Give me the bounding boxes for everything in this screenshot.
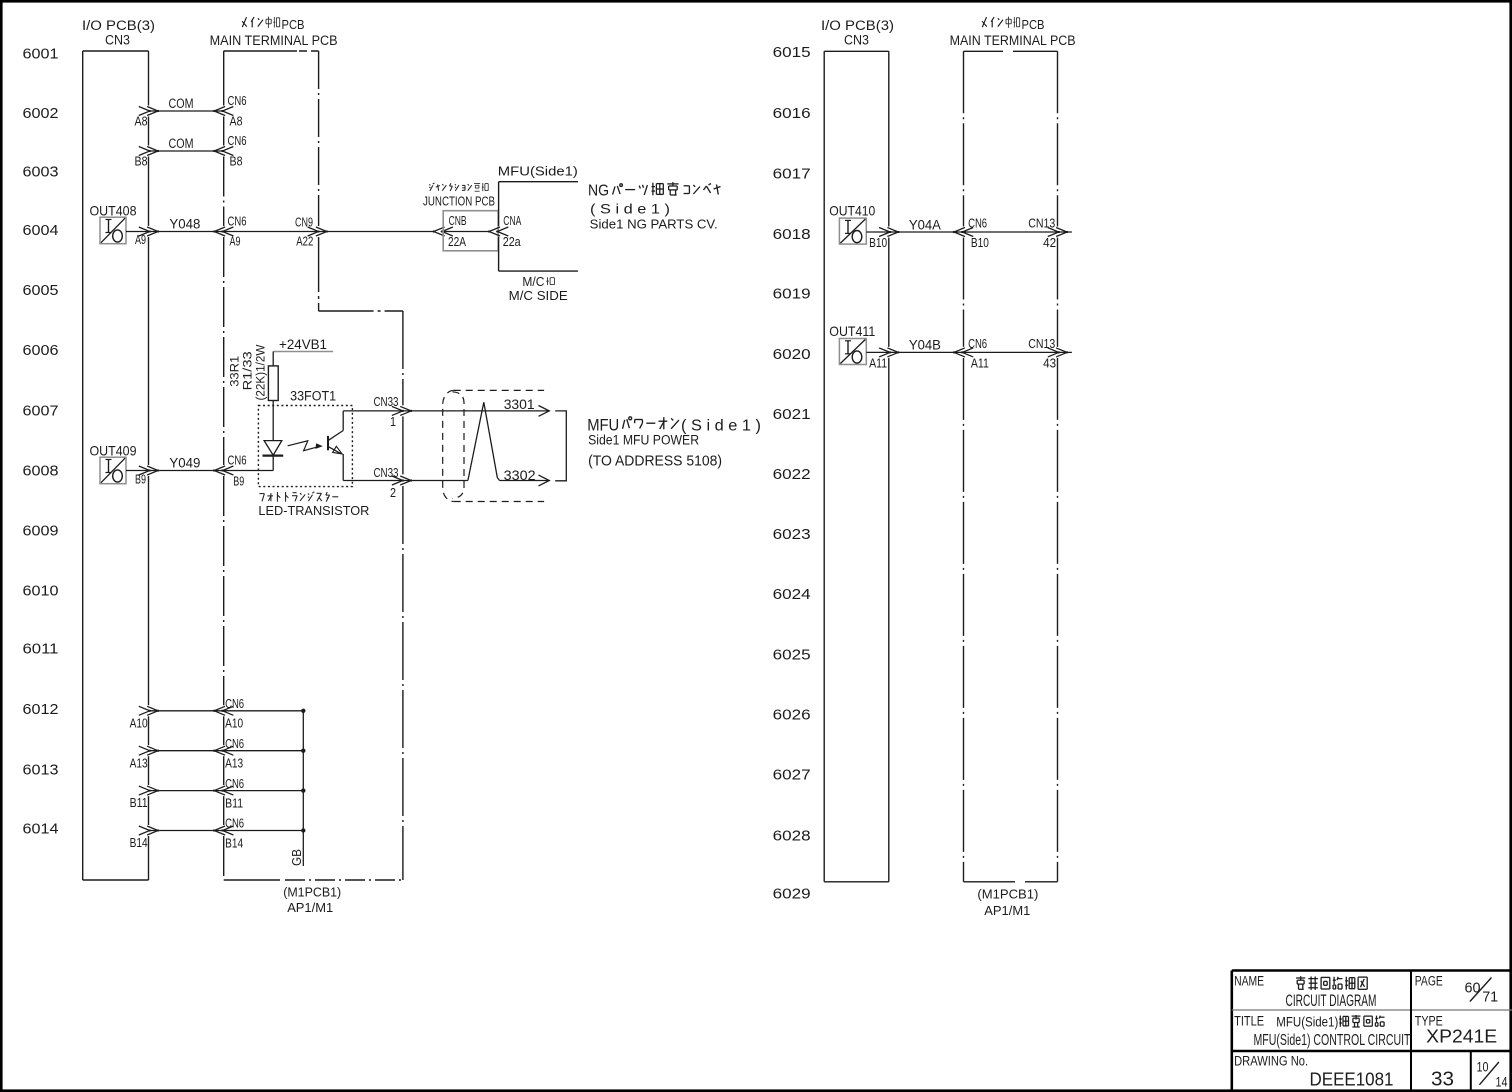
twisted pair crossover (468, 402, 500, 480)
svg-text:42: 42 (1043, 236, 1056, 250)
svg-text:CN13: CN13 (1028, 216, 1055, 230)
svg-text:A11: A11 (869, 356, 887, 370)
svg-text:PCB: PCB (1022, 17, 1045, 32)
junction PCB box (443, 211, 498, 251)
svg-text:71: 71 (1482, 989, 1498, 1006)
svg-text:6028: 6028 (773, 828, 811, 844)
svg-text:CNB: CNB (449, 214, 467, 228)
wire CN3 B11 to CN6 B11 (149, 790, 224, 792)
svg-text:6004: 6004 (23, 223, 59, 239)
svg-text:(M1PCB1): (M1PCB1) (977, 887, 1038, 902)
junction dot (301, 788, 305, 792)
arrow into M/C side CNA 22a (497, 227, 508, 236)
svg-text:43: 43 (1043, 356, 1056, 370)
svg-text:JUNCTION PCB: JUNCTION PCB (423, 195, 495, 209)
svg-text:CN6: CN6 (968, 216, 987, 230)
svg-text:22A: 22A (448, 235, 467, 249)
svg-text:CN33: CN33 (374, 466, 399, 480)
svg-text:22a: 22a (503, 235, 521, 249)
svg-text:6018: 6018 (773, 227, 811, 243)
arrow out of CN3 pin A10 (139, 706, 150, 715)
svg-text:CN6: CN6 (228, 94, 247, 108)
connector box CN3 of I/O PCB(3) right (823, 51, 825, 882)
svg-text:Y049: Y049 (169, 456, 200, 471)
svg-text:(22K)1/2W: (22K)1/2W (256, 344, 268, 400)
svg-text:33R1: 33R1 (230, 356, 242, 387)
svg-text:MFU(Side1): MFU(Side1) (498, 163, 578, 178)
svg-text:I/O PCB(3): I/O PCB(3) (821, 18, 894, 33)
svg-text:B11: B11 (130, 796, 148, 810)
arrow into CN6 pin B11 (222, 786, 233, 795)
svg-text:OUT408: OUT408 (90, 203, 137, 219)
wire CN3 A13 to CN6 A13 (149, 750, 224, 752)
svg-text:6012: 6012 (23, 702, 59, 718)
PCB boundary bottom edge left (224, 879, 280, 881)
svg-text:A13: A13 (225, 757, 243, 771)
svg-text:6002: 6002 (23, 106, 59, 122)
svg-text:PCB: PCB (282, 17, 305, 32)
wire COM A8 (149, 110, 224, 112)
svg-text:AP1/M1: AP1/M1 (287, 900, 333, 915)
svg-text:3302: 3302 (504, 467, 536, 483)
arrow out of CN3 pin B10 (879, 228, 890, 237)
LED of opto-coupler (264, 441, 282, 456)
wire 3302 from photo-transistor emitter (343, 480, 468, 482)
svg-text:OUT410: OUT410 (829, 202, 875, 218)
svg-text:CIRCUIT DIAGRAM: CIRCUIT DIAGRAM (1286, 992, 1377, 1010)
destination bracket (555, 411, 566, 481)
svg-text:6024: 6024 (773, 587, 811, 603)
svg-text:B14: B14 (225, 836, 243, 850)
arrow through CN9 pin A22 (308, 227, 319, 236)
wire CN6 A13 to GB bus (224, 750, 304, 752)
arrow into CN6 pin B9 (222, 466, 233, 475)
arrow into CN6 pin A10 (222, 706, 233, 715)
arrow into CN6 pin A11 (962, 348, 973, 357)
svg-text:B14: B14 (130, 836, 148, 850)
svg-text:CN6: CN6 (228, 454, 247, 468)
wire Y04B from OUT411 to CN6 (866, 351, 963, 353)
svg-text:A9: A9 (135, 233, 146, 247)
svg-text:DRAWING No.: DRAWING No. (1234, 1053, 1308, 1068)
connector box CN3 of I/O PCB(3) left (82, 51, 84, 880)
arrow through CN33 pin 2 (392, 476, 403, 485)
svg-text:M/C: M/C (522, 274, 544, 289)
wire Y048 from OUT408 to CN6 A9 (126, 231, 224, 233)
svg-text:B8: B8 (135, 155, 148, 169)
svg-text:6016: 6016 (773, 106, 811, 122)
svg-text:NAME: NAME (1234, 974, 1264, 989)
svg-text:6007: 6007 (23, 403, 59, 419)
wire Y04A from OUT410 to CN6 (866, 231, 963, 233)
svg-text:6015: 6015 (773, 45, 811, 61)
svg-text:CN33: CN33 (374, 395, 399, 409)
svg-text:B11: B11 (225, 796, 243, 810)
svg-text:6003: 6003 (23, 165, 59, 181)
svg-text:6005: 6005 (23, 283, 59, 299)
light coupling arrow (288, 441, 317, 451)
svg-text:LED-TRANSISTOR: LED-TRANSISTOR (258, 503, 369, 518)
svg-text:A11: A11 (971, 356, 989, 370)
svg-text:DEEE1081: DEEE1081 (1310, 1070, 1394, 1090)
svg-text:MFU(Side1) CONTROL CIRCUIT: MFU(Side1) CONTROL CIRCUIT (1254, 1032, 1411, 1049)
net GB bus (302, 711, 304, 866)
junction dot (301, 709, 305, 713)
svg-text:6029: 6029 (773, 887, 811, 903)
svg-text:6006: 6006 (23, 343, 59, 359)
svg-text:6010: 6010 (23, 584, 59, 600)
arrow out of CN3 pin A9 (139, 227, 150, 236)
svg-text:A13: A13 (130, 756, 148, 770)
wire LED cathode to CN6 B9 (272, 456, 274, 471)
svg-text:R1/33: R1/33 (243, 351, 255, 390)
svg-text:TITLE: TITLE (1234, 1014, 1264, 1029)
wire CN6 A10 to GB bus (224, 710, 304, 712)
svg-text:1: 1 (390, 415, 396, 429)
svg-text:CNA: CNA (503, 214, 521, 228)
svg-text:GB: GB (289, 849, 304, 866)
svg-text:6011: 6011 (23, 642, 59, 658)
svg-text:6013: 6013 (23, 762, 59, 778)
svg-text:A8: A8 (135, 115, 148, 129)
wire from CN6 A9 to CN9 A22 (224, 231, 433, 233)
svg-text:Y04B: Y04B (909, 338, 941, 353)
title block frame (1231, 971, 1234, 1092)
svg-text:B10: B10 (869, 236, 887, 250)
arrow into CN6 pin B14 (222, 826, 233, 835)
svg-text:NG: NG (588, 183, 609, 200)
label LED-TRANSISTOR (Japanese) (259, 493, 264, 495)
wire COM B8 (149, 150, 224, 152)
PCB boundary main terminal PCB left (chain line) (224, 50, 297, 52)
wire resistor to LED anode (272, 401, 274, 441)
arrow out of CN3 pin A8 (139, 107, 150, 116)
arrow into CN6 pin B10 (962, 228, 973, 237)
svg-text:CN6: CN6 (228, 134, 247, 148)
svg-text:6025: 6025 (773, 647, 811, 663)
svg-text:B9: B9 (135, 473, 146, 487)
arrow out of CN3 pin A13 (139, 746, 150, 755)
arrow out CN13 pin 43 (1048, 348, 1059, 357)
PCB boundary jog from node A22 down and right (318, 237, 320, 311)
wire CN6 B14 to GB bus (224, 830, 304, 832)
wire 3301 from photo-transistor collector (343, 410, 548, 412)
svg-text:6027: 6027 (773, 768, 811, 784)
svg-text:(M1PCB1): (M1PCB1) (283, 884, 341, 899)
svg-text:Y04A: Y04A (909, 217, 941, 232)
svg-text:CN6: CN6 (225, 737, 244, 751)
svg-text:CN13: CN13 (1028, 337, 1055, 351)
svg-text:6001: 6001 (23, 46, 59, 62)
svg-text:A22: A22 (296, 234, 313, 248)
label junction PCB (Japanese) (429, 184, 430, 185)
wire Y049 from OUT409 to CN6 B9 (126, 470, 224, 472)
svg-text:Side1 NG PARTS CV.: Side1 NG PARTS CV. (590, 217, 718, 232)
svg-text:A9: A9 (230, 235, 241, 249)
svg-text:OUT411: OUT411 (829, 323, 875, 339)
svg-text:(TO ADDRESS 5108): (TO ADDRESS 5108) (588, 454, 722, 470)
photo-transistor of opto-coupler (327, 436, 329, 450)
svg-text:CN3: CN3 (844, 33, 869, 48)
cable sheath (dashed) (454, 389, 544, 391)
arrow into CN6 pin B8 (222, 147, 233, 156)
svg-text:B10: B10 (971, 236, 989, 250)
arrow into CN6 pin A9 (222, 227, 233, 236)
svg-text:33FOT1: 33FOT1 (290, 389, 336, 404)
label main terminal PCB (left, Japanese) (242, 17, 246, 27)
svg-text:10: 10 (1477, 1059, 1489, 1075)
wire CN6 to CN13 pin 42 (964, 231, 1072, 233)
arrow out of CN3 pin B8 (139, 147, 150, 156)
svg-text:CN6: CN6 (225, 697, 244, 711)
arrow out of CN3 pin B14 (139, 826, 150, 835)
svg-text:A10: A10 (130, 716, 148, 730)
wire through junction PCB CNB 22A to CNA 22a (442, 231, 489, 233)
svg-text:CN3: CN3 (105, 33, 130, 48)
svg-text:6014: 6014 (23, 822, 59, 838)
svg-text:MFU(Side1): MFU(Side1) (1276, 1014, 1338, 1030)
arrow into CN6 pin A8 (222, 107, 233, 116)
arrow into CN6 pin A13 (222, 746, 233, 755)
svg-text:6009: 6009 (23, 523, 59, 539)
svg-text:( S i d e 1 ): ( S i d e 1 ) (590, 202, 670, 217)
arrow through CN33 pin 1 (392, 406, 403, 415)
label main terminal PCB (right, Japanese) (982, 17, 986, 27)
svg-text:Y048: Y048 (169, 217, 200, 232)
svg-text:6020: 6020 (773, 347, 811, 363)
arrow out of CN3 pin A11 (879, 348, 890, 357)
resistor R1/33 (22K) 1/2W (268, 366, 278, 401)
svg-text:+24VB1: +24VB1 (279, 337, 327, 352)
svg-text:6022: 6022 (773, 467, 811, 483)
svg-text:6008: 6008 (23, 463, 59, 479)
svg-text:CN6: CN6 (228, 215, 247, 229)
svg-text:CN6: CN6 (225, 777, 244, 791)
arrow out of CN3 pin B9 (139, 466, 150, 475)
svg-text:OUT409: OUT409 (90, 443, 137, 459)
wire CN3 B14 to CN6 B14 (149, 830, 224, 832)
svg-text:14: 14 (1496, 1074, 1508, 1090)
svg-text:3301: 3301 (504, 396, 535, 412)
svg-text:A8: A8 (230, 115, 243, 129)
wire CN3 A10 to CN6 A10 (149, 710, 224, 712)
svg-text:B8: B8 (230, 155, 243, 169)
svg-text:6026: 6026 (773, 707, 811, 723)
svg-text:COM: COM (169, 136, 194, 151)
svg-text:2: 2 (390, 486, 396, 500)
svg-text:I/O PCB(3): I/O PCB(3) (82, 18, 155, 33)
svg-text:B9: B9 (233, 475, 244, 489)
wire CN6 to CN13 pin 43 (964, 351, 1072, 353)
arrow out of CN3 pin B11 (139, 786, 150, 795)
svg-text:CN9: CN9 (295, 216, 313, 230)
svg-text:33: 33 (1431, 1069, 1454, 1091)
junction dot (301, 828, 305, 832)
opto-coupler 33FOT1 dotted outline (258, 406, 352, 487)
svg-text:6017: 6017 (773, 167, 811, 183)
PCB boundary main terminal PCB right (chain line) (964, 50, 1004, 52)
svg-text:XP241E: XP241E (1426, 1027, 1497, 1047)
wire from +24VB1 to resistor (272, 352, 274, 366)
svg-text:CN6: CN6 (968, 337, 987, 351)
wire CN6 B11 to GB bus (224, 790, 304, 792)
svg-text:MAIN TERMINAL PCB: MAIN TERMINAL PCB (210, 33, 338, 48)
svg-text:MAIN TERMINAL PCB: MAIN TERMINAL PCB (950, 33, 1076, 48)
svg-text:6019: 6019 (773, 286, 811, 302)
svg-text:COM: COM (169, 96, 194, 111)
wire CN6 B9 to LED cathode (224, 470, 274, 472)
svg-text:CN6: CN6 (225, 817, 244, 831)
svg-text:60: 60 (1465, 980, 1481, 997)
junction dot (301, 749, 305, 753)
svg-text:M/C SIDE: M/C SIDE (509, 288, 568, 303)
svg-text:PAGE: PAGE (1415, 974, 1443, 989)
svg-text:AP1/M1: AP1/M1 (984, 903, 1030, 918)
arrow out CN13 pin 42 (1048, 228, 1059, 237)
svg-text:Side1 MFU POWER: Side1 MFU POWER (588, 432, 699, 447)
svg-text:A10: A10 (225, 717, 243, 731)
svg-text:6023: 6023 (773, 527, 811, 543)
svg-text:6021: 6021 (773, 407, 811, 423)
arrow into junction PCB CNB 22A (442, 227, 453, 236)
M/C side bracket (498, 182, 500, 226)
